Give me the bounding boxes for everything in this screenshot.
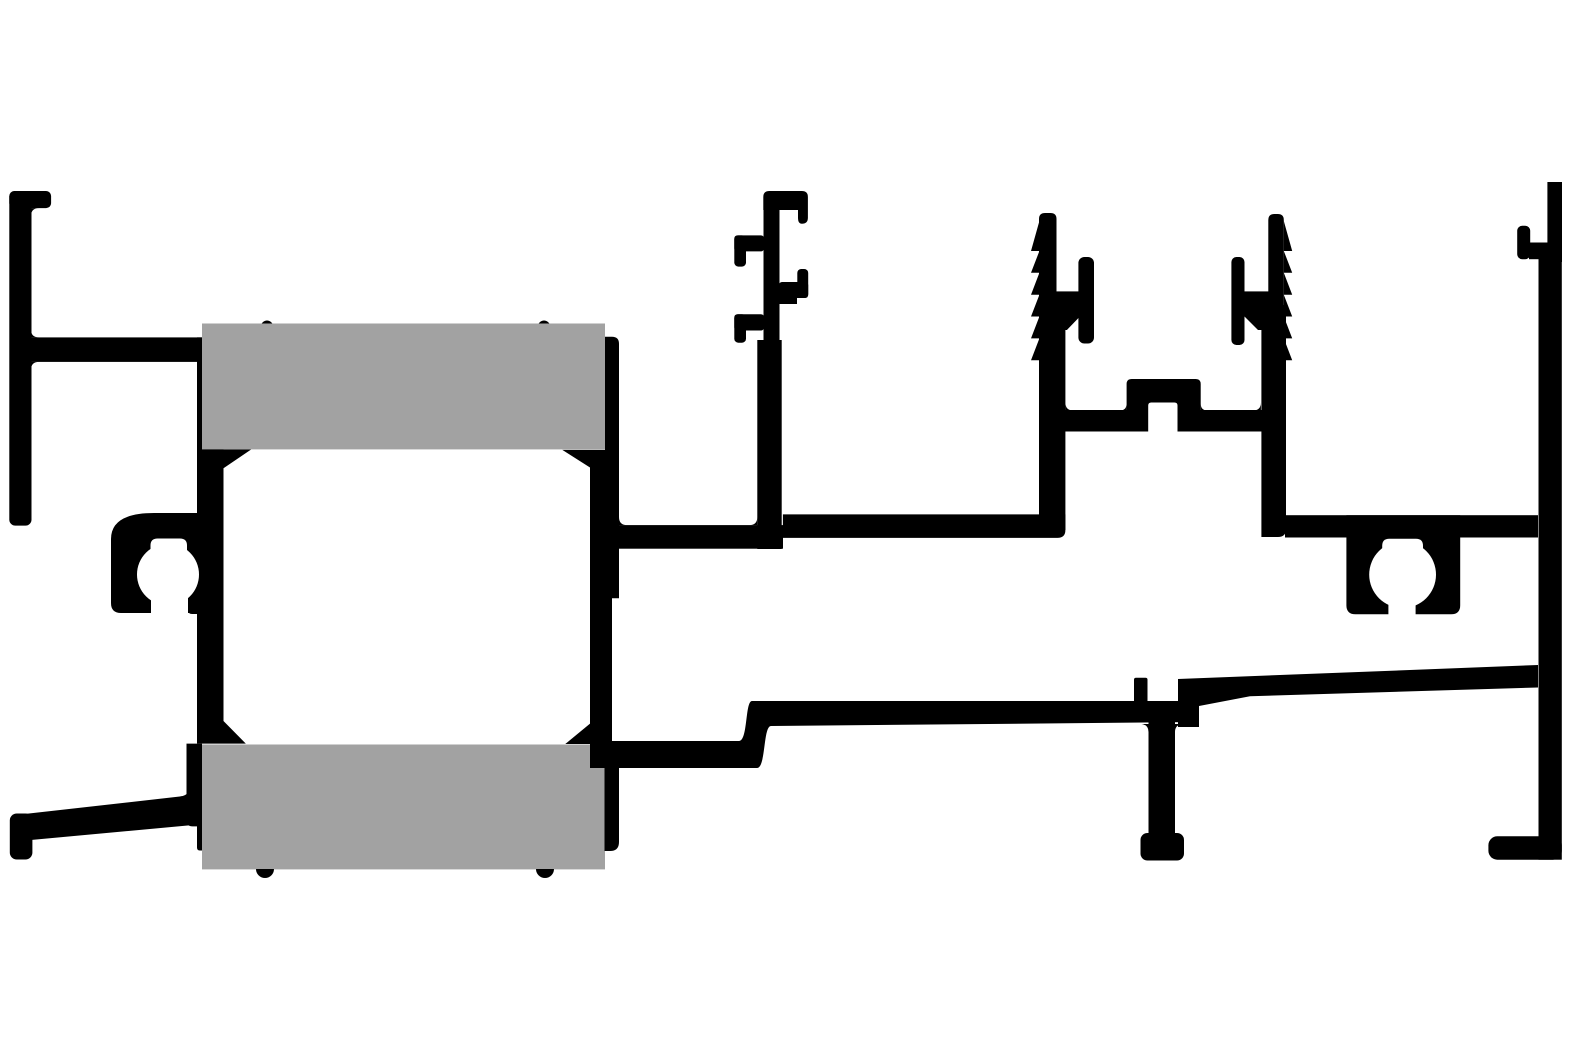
rail T-leg (1149, 715, 1176, 834)
sash left lower inner sliver (197, 744, 202, 851)
left boss prong (1078, 257, 1094, 344)
right arm to frame (1285, 515, 1538, 537)
thermal break strip top (gray) (202, 324, 605, 450)
jamb lip inner fillet (31, 208, 39, 216)
sill strip end block (10, 814, 33, 860)
bead arm right (783, 514, 1066, 538)
bead lower bar (757, 340, 781, 549)
sill strip junction fillet (180, 785, 190, 798)
thermal break nub top-left (261, 321, 273, 333)
cross bar hat bump (1127, 379, 1201, 411)
right boss jaw chamfer (1245, 317, 1270, 331)
sash left wall with gussets (197, 337, 251, 743)
thermal break strip bottom (gray) (202, 745, 605, 870)
rail T-leg base fillets (1142, 724, 1183, 732)
bead left hook 2 top (734, 314, 764, 330)
clip cavity top slot (151, 539, 188, 576)
frame right wall bottom foot (1488, 836, 1561, 860)
keyhole bottom opening (1388, 600, 1415, 616)
frame right wall main (1539, 258, 1562, 860)
bead arm left (616, 525, 783, 549)
rail up-stub (1134, 678, 1148, 706)
hat slot opening (1148, 403, 1177, 436)
screw-channel clip on left wall (outer) (111, 513, 197, 613)
bead arm left junction fillet (619, 517, 757, 525)
outer frame jamb vertical bar (9, 191, 31, 526)
cavity bottom-right chamfer gusset (565, 722, 592, 744)
cross bar pocket corner fillets (1065, 403, 1261, 411)
bead right hook lip (797, 269, 808, 298)
thermal break nub top-right (538, 321, 550, 333)
rail step block (1178, 679, 1199, 727)
right boss prong (1231, 257, 1244, 345)
clip wall bump (188, 601, 197, 614)
rail T-foot (1141, 833, 1185, 861)
sill diagonal top band (1178, 665, 1538, 706)
left boss bridge (1056, 291, 1080, 316)
right screw boss serrated body (1268, 214, 1284, 365)
thermal break nub bottom-left (256, 869, 274, 878)
cross bar hat base fillets (1120, 404, 1208, 411)
bottom sill diagonal strip (20, 795, 193, 841)
keyhole circle (1369, 541, 1436, 608)
left boss jaw chamfer (1056, 317, 1080, 331)
keyhole legs block (1346, 515, 1460, 614)
bead left hook 2 lip (734, 314, 746, 343)
frame right wall hook connector (1529, 243, 1548, 260)
bead cap right lip (798, 210, 808, 224)
keyhole top slot (1382, 539, 1423, 575)
sash bottom-right wall (605, 745, 620, 851)
glazing bead cap (763, 191, 808, 210)
right boss lower wall (1261, 305, 1286, 537)
jamb horizontal fixing arm (29, 337, 202, 362)
bead right hook step (779, 296, 797, 304)
sash left lower strip beside bottom thermal break (187, 744, 198, 827)
bead upper bar (764, 200, 780, 345)
jamb top lip (9, 191, 51, 208)
left boss lower wall (1039, 305, 1065, 530)
right boss bridge (1245, 291, 1269, 316)
jamb arm top fillet (31, 329, 39, 337)
frame right wall hook nub (1517, 226, 1530, 259)
frame right wall top narrow part (1547, 182, 1562, 262)
cross bar between bosses (1060, 410, 1262, 432)
bead left hook 1 top (734, 235, 764, 251)
sash right wall with gussets and step (562, 337, 619, 742)
right boss serration teeth (1284, 221, 1292, 360)
bottom rail bar with S-step (590, 701, 1199, 768)
bead right hook bottom (779, 282, 808, 298)
left screw boss serrated body (1039, 213, 1057, 365)
bead left hook 1 lip (734, 235, 746, 266)
clip cavity circle (137, 544, 199, 606)
clip bottom opening (151, 595, 188, 616)
jamb arm bottom fillet (31, 362, 39, 370)
left boss serration teeth (1031, 221, 1039, 360)
thermal break nub bottom-right (536, 869, 554, 878)
